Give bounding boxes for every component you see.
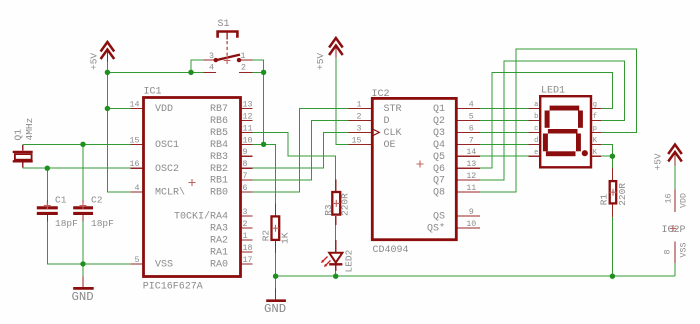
svg-text:4: 4 [135,184,140,193]
svg-text:18pF: 18pF [91,218,114,229]
svg-text:GND: GND [72,290,94,304]
svg-text:7: 7 [469,136,474,145]
svg-text:MCLR\: MCLR\ [155,187,185,199]
svg-text:18pF: 18pF [55,218,78,229]
svg-text:RA1: RA1 [210,247,228,258]
svg-text:2: 2 [357,112,362,121]
svg-text:b: b [534,113,538,121]
svg-text:LED1: LED1 [541,85,565,96]
svg-text:RB6: RB6 [210,116,228,127]
svg-text:OE: OE [384,140,396,151]
svg-text:a: a [534,101,538,109]
svg-text:10: 10 [243,136,253,145]
svg-text:p: p [593,125,597,133]
svg-text:e: e [534,149,538,157]
svg-text:CLK: CLK [384,128,402,139]
svg-text:OSC1: OSC1 [155,140,179,151]
svg-text:11: 11 [466,184,476,193]
svg-text:Q4: Q4 [433,140,445,151]
svg-text:5: 5 [135,256,140,265]
svg-text:QS: QS [433,212,445,223]
svg-text:T0CKI/RA4: T0CKI/RA4 [174,211,228,223]
svg-text:4: 4 [469,101,474,110]
svg-text:S1: S1 [218,19,230,30]
svg-text:GND: GND [264,302,286,316]
svg-text:RB3: RB3 [210,152,228,163]
svg-text:4: 4 [209,63,214,72]
svg-text:PIC16F627A: PIC16F627A [143,281,203,292]
svg-text:1: 1 [243,232,248,241]
svg-text:IC2P: IC2P [662,225,686,236]
svg-text:5: 5 [469,112,474,121]
svg-text:4MHz: 4MHz [24,118,35,141]
svg-text:RB5: RB5 [210,128,228,139]
svg-text:8: 8 [664,250,673,255]
svg-text:12: 12 [243,112,253,121]
svg-text:VDD: VDD [155,104,173,115]
svg-text:18: 18 [243,244,253,253]
svg-text:1K: 1K [280,232,291,244]
svg-text:16: 16 [130,160,140,169]
svg-text:LED2: LED2 [343,249,354,272]
svg-text:Q8: Q8 [433,188,445,199]
svg-text:C2: C2 [91,194,103,205]
svg-text:STR: STR [384,104,402,115]
svg-text:14: 14 [130,101,140,110]
svg-text:VSS: VSS [680,243,689,258]
svg-text:VSS: VSS [155,259,173,270]
svg-text:C1: C1 [55,194,67,205]
svg-text:220R: 220R [340,193,351,216]
svg-text:OSC2: OSC2 [155,164,179,175]
svg-text:1: 1 [241,52,246,61]
svg-text:15: 15 [130,136,140,145]
svg-text:R2: R2 [260,230,271,242]
svg-text:6: 6 [243,184,248,193]
svg-text:R3: R3 [323,204,334,216]
svg-text:Q2: Q2 [433,116,445,127]
svg-text:RB1: RB1 [210,176,228,187]
svg-text:2: 2 [243,220,248,229]
svg-text:10: 10 [466,220,476,229]
svg-text:IC2: IC2 [372,89,390,100]
svg-text:RB0: RB0 [210,188,228,199]
svg-text:R1: R1 [598,194,609,206]
svg-text:2: 2 [241,63,246,72]
svg-text:g: g [593,101,597,109]
svg-text:14: 14 [466,148,476,157]
svg-text:7: 7 [243,172,248,181]
svg-text:Q6: Q6 [433,164,445,175]
svg-text:QS*: QS* [427,223,445,235]
svg-text:3: 3 [357,124,362,133]
svg-text:11: 11 [243,124,253,133]
svg-text:d: d [534,137,538,145]
svg-text:16: 16 [665,194,674,204]
svg-text:Q7: Q7 [433,176,445,187]
svg-text:Q1: Q1 [13,129,24,141]
svg-text:c: c [534,125,538,133]
svg-text:1: 1 [357,101,362,110]
svg-text:+5V: +5V [653,153,664,170]
svg-text:+5V: +5V [315,53,326,70]
svg-text:6: 6 [469,124,474,133]
svg-text:Q3: Q3 [433,128,445,139]
svg-text:17: 17 [243,256,253,265]
svg-text:3: 3 [209,52,214,61]
svg-text:Q5: Q5 [433,152,445,163]
svg-text:RA2: RA2 [210,236,228,247]
svg-text:8: 8 [243,160,248,169]
svg-text:9: 9 [243,148,248,157]
svg-text:RB7: RB7 [210,104,228,115]
svg-text:220R: 220R [617,183,628,206]
svg-text:13: 13 [243,101,253,110]
svg-text:f: f [593,113,597,121]
svg-text:13: 13 [466,160,476,169]
svg-text:Q1: Q1 [433,104,445,115]
svg-text:RB4: RB4 [210,140,228,151]
svg-text:IC1: IC1 [144,87,162,98]
svg-text:CD4094: CD4094 [373,245,409,256]
svg-text:RA0: RA0 [210,259,228,270]
svg-text:15: 15 [352,136,362,145]
svg-text:+5V: +5V [89,53,100,70]
svg-text:VDD: VDD [680,193,689,208]
svg-text:12: 12 [466,172,476,181]
svg-text:9: 9 [469,208,474,217]
svg-text:RA3: RA3 [210,224,228,235]
svg-text:3: 3 [243,208,248,217]
svg-text:RB2: RB2 [210,164,228,175]
svg-text:D: D [384,116,390,127]
